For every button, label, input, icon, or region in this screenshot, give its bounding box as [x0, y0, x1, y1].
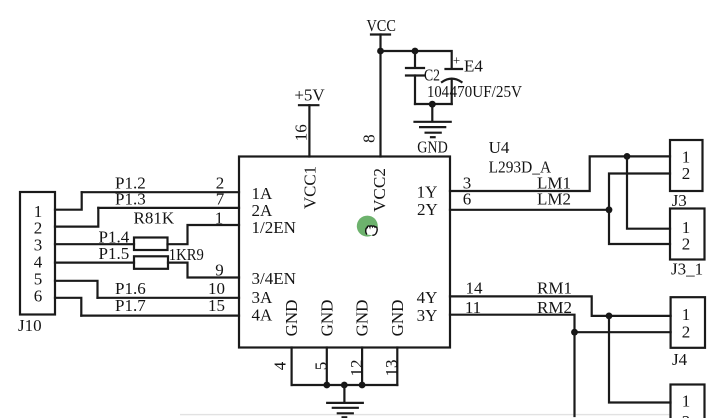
junction ground top — [429, 101, 436, 108]
svg-text:3/4EN: 3/4EN — [252, 269, 296, 288]
svg-text:1: 1 — [215, 209, 224, 228]
svg-text:RM1: RM1 — [537, 279, 572, 298]
svg-text:15: 15 — [208, 296, 225, 315]
wire net LM1 (1Y to J3 pin1) — [450, 156, 670, 191]
svg-text:2: 2 — [682, 235, 691, 254]
svg-text:12: 12 — [347, 360, 366, 377]
svg-text:VCC2: VCC2 — [370, 168, 389, 212]
wire net P1.7 — [81, 315, 239, 317]
svg-text:+: + — [453, 53, 460, 68]
wire net P1.3 — [98, 207, 239, 209]
svg-text:4Y: 4Y — [417, 288, 438, 307]
svg-text:11: 11 — [465, 298, 481, 317]
svg-text:J10: J10 — [18, 316, 42, 335]
junction ground bus a — [323, 382, 330, 389]
junction VCC branch — [377, 48, 384, 55]
wire LM1 to J3_1 pin1 — [627, 156, 670, 228]
resistor R9 — [134, 256, 168, 269]
connector J4_1 (bottom, partially visible) — [671, 385, 705, 418]
wire J10 pin1 to net P1.2 — [55, 192, 82, 210]
resistor R8 — [134, 238, 168, 251]
wire net RM2 (3Y to J4 pin2) — [450, 315, 671, 333]
svg-text:P1.5: P1.5 — [99, 244, 130, 263]
wire RM1 to J4_1 pin1 — [609, 316, 671, 403]
svg-text:2A: 2A — [252, 201, 274, 220]
power symbol VCC — [366, 16, 396, 35]
svg-text:VCC: VCC — [366, 16, 396, 35]
wire J10 pin2 to net P1.3 — [55, 208, 98, 227]
svg-text:5: 5 — [312, 362, 331, 371]
wire J10 pin5 to net P1.6 — [55, 281, 98, 298]
svg-text:470UF/25V: 470UF/25V — [450, 82, 523, 101]
svg-text:6: 6 — [463, 190, 472, 209]
wire net RM1 (4Y to J4 pin1) — [450, 296, 671, 316]
svg-text:4: 4 — [271, 361, 290, 370]
svg-text:13: 13 — [382, 360, 401, 377]
wire net LM2 (2Y to junction) — [450, 209, 609, 211]
wire net P1.6 — [98, 297, 240, 299]
wire +5V to pin 16 — [308, 105, 310, 156]
junction ground bus c — [359, 382, 366, 389]
svg-text:1Y: 1Y — [417, 183, 438, 202]
wire RM2 down to J4_1 pin2 — [573, 332, 575, 416]
capacitor E4 — [442, 53, 523, 105]
junction LM1 branch — [624, 153, 631, 160]
svg-text:U4: U4 — [489, 138, 510, 157]
junction LM2 branch — [606, 206, 613, 213]
connector J3_1 — [670, 209, 705, 279]
junction RM1 branch — [606, 313, 613, 320]
svg-text:J4: J4 — [672, 350, 688, 369]
svg-text:1/2EN: 1/2EN — [252, 218, 296, 237]
svg-text:3Y: 3Y — [417, 306, 438, 325]
svg-text:R81K: R81K — [134, 209, 175, 228]
svg-text:6: 6 — [34, 287, 43, 306]
power symbol +5V — [294, 86, 325, 106]
svg-text:1KR9: 1KR9 — [169, 245, 204, 264]
wire IC pin 5 to ground bus — [326, 348, 328, 386]
svg-text:GND: GND — [282, 300, 301, 337]
wire R8 to 1/2EN — [168, 225, 240, 244]
svg-text:GND: GND — [317, 300, 336, 337]
wire LM2 to J3 pin2 and J3_1 pin2 — [609, 174, 670, 245]
junction C2 top — [412, 48, 419, 55]
wire IC pin 12 to ground bus — [361, 348, 363, 386]
svg-text:2: 2 — [682, 412, 691, 418]
wire J10 pin4 to resistor R9 — [55, 262, 134, 264]
svg-text:2: 2 — [682, 164, 691, 183]
svg-text:VCC1: VCC1 — [301, 166, 320, 209]
wire VCC to capacitor tops — [381, 51, 452, 69]
svg-text:2Y: 2Y — [417, 200, 438, 219]
svg-text:J3_1: J3_1 — [671, 260, 703, 279]
wire IC pin 4 to ground bus — [291, 348, 293, 386]
svg-text:16: 16 — [292, 124, 311, 141]
svg-text:1: 1 — [682, 392, 691, 411]
wire IC pin 13 to ground bus — [396, 348, 398, 386]
svg-text:GND: GND — [353, 300, 372, 337]
svg-text:GND: GND — [388, 300, 407, 337]
svg-text:14: 14 — [466, 279, 484, 298]
svg-text:9: 9 — [215, 261, 224, 280]
wire J10 pin6 to net P1.7 — [55, 298, 81, 316]
wire J10 pin3 to resistor R8 — [55, 243, 134, 245]
wire C2 top lead — [414, 51, 416, 68]
cursor hand pointer — [366, 226, 377, 236]
svg-text:1: 1 — [682, 305, 691, 324]
svg-text:E4: E4 — [464, 57, 483, 76]
cursor click highlight — [357, 216, 378, 237]
svg-text:7: 7 — [216, 190, 225, 209]
wire VCC vertical to pin 8 — [379, 35, 381, 157]
junction ground bus b — [341, 382, 348, 389]
svg-text:LM2: LM2 — [537, 190, 571, 209]
svg-text:3A: 3A — [252, 288, 274, 307]
svg-text:P1.7: P1.7 — [115, 296, 146, 315]
connector J4 — [671, 297, 705, 369]
wire R9 to 3/4EN — [168, 263, 239, 278]
svg-text:+5V: +5V — [294, 86, 325, 105]
svg-text:8: 8 — [359, 134, 378, 143]
IC U4 L293D_A body — [239, 157, 450, 348]
svg-text:RM2: RM2 — [537, 298, 572, 317]
svg-text:GND: GND — [417, 138, 448, 157]
capacitor C2 — [406, 66, 449, 105]
junction RM2 branch — [571, 329, 578, 336]
connector J10 — [18, 192, 55, 335]
faint window edge line bottom — [180, 414, 670, 415]
svg-text:4A: 4A — [252, 305, 274, 324]
svg-text:104: 104 — [427, 82, 449, 101]
svg-text:P1.3: P1.3 — [115, 190, 146, 209]
ground (bottom) — [327, 385, 363, 417]
ground (top) GND — [415, 104, 451, 157]
wire net P1.2 — [82, 191, 239, 193]
wire capacitor bottoms — [415, 103, 452, 105]
wire ground bus — [292, 384, 398, 386]
svg-text:J3: J3 — [672, 191, 687, 210]
svg-text:2: 2 — [682, 323, 691, 342]
connector J3 — [670, 140, 703, 210]
